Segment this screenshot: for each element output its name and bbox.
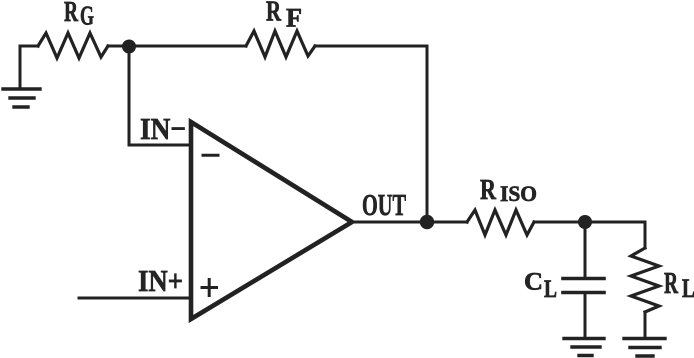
svg-text:IN+: IN+ [138,263,183,298]
wire IN+ input [79,297,191,300]
op-amp U1 [191,122,352,319]
wire IN- to op-amp [129,144,191,147]
svg-text:R: R [266,0,282,28]
svg-text:F: F [286,3,302,32]
resistor R_ISO [467,210,534,235]
node OUT junction dot [420,215,434,229]
resistor R_G [38,33,108,58]
svg-text:R: R [664,265,678,300]
wire R_L to ground [644,312,647,338]
svg-text:G: G [80,1,94,31]
wire feedback right vertical [426,46,429,222]
wire C_L to ground [584,294,587,338]
svg-text:R: R [480,174,497,206]
wire node B to R_L [644,222,647,248]
svg-text:C: C [524,269,543,296]
ground (under C_L) [564,339,604,356]
wire R_ISO to node B and R_L corner [534,221,645,224]
wire R_G to node A and on to R_F [108,45,246,48]
ground (under R_L) [624,339,665,357]
wire node B down to C_L [584,222,587,277]
svg-text:L: L [682,274,694,303]
node B junction dot [578,215,592,229]
svg-text:OUT: OUT [362,187,406,222]
svg-text:ISO: ISO [500,181,537,206]
resistor R_L [631,248,659,312]
wire node A down to IN- [128,46,131,145]
op-amp plus pin mark [202,280,217,296]
svg-text:IN−: IN− [140,111,186,146]
svg-text:L: L [544,276,557,303]
resistor R_F [246,31,315,57]
svg-text:R: R [64,0,79,28]
op-amp minus pin mark [203,154,218,157]
wire OUT to R_ISO [352,221,467,224]
wire left riser to R_G [20,46,38,89]
node A junction dot [122,40,136,54]
wire R_F to top-right corner [315,45,427,48]
capacitor C_L plates [563,279,604,293]
ground (left) [3,89,40,107]
